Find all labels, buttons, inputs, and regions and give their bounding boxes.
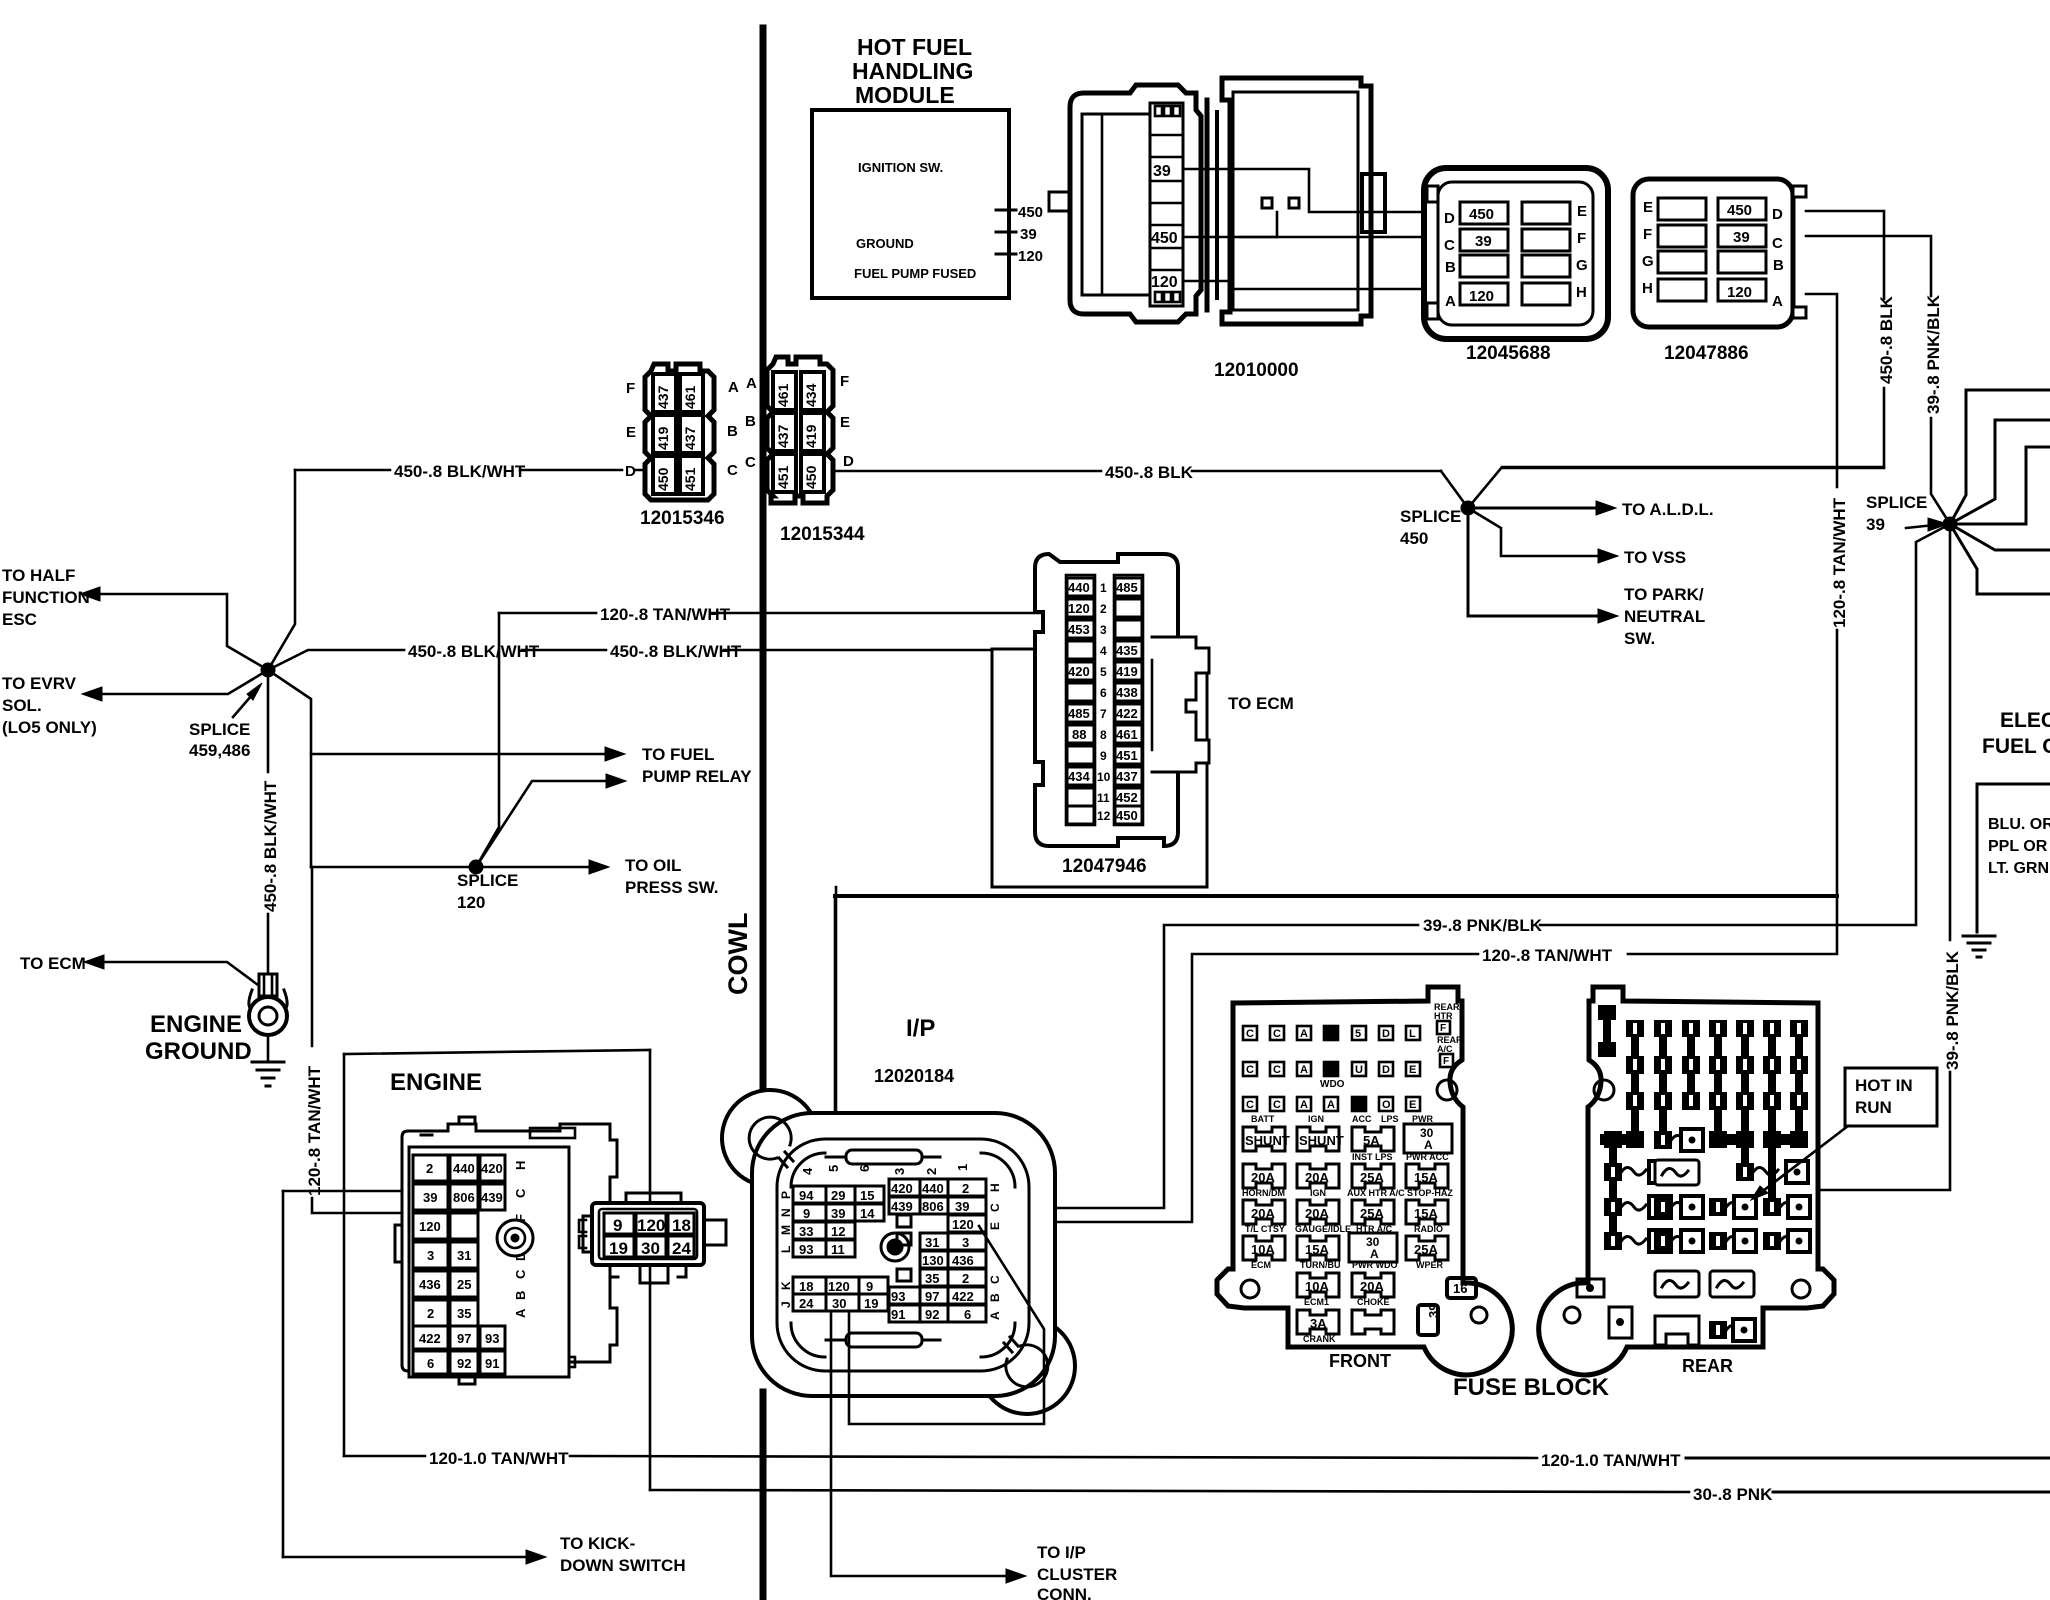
- FRONT fuse row B: [1243, 1152, 1449, 1188]
- svg-text:9: 9: [1100, 749, 1107, 763]
- svg-text:20A: 20A: [1305, 1206, 1329, 1221]
- ground symbol left: [252, 1035, 284, 1086]
- splice120 branch to fuel pump relay arrow2: [476, 774, 626, 867]
- splice 459,486: [189, 470, 295, 760]
- svg-text:15A: 15A: [1414, 1206, 1438, 1221]
- svg-text:ECM: ECM: [1251, 1260, 1271, 1270]
- svg-text:15A: 15A: [1305, 1242, 1329, 1257]
- svg-text:6: 6: [427, 1356, 434, 1371]
- svg-text:120-1.0 TAN/WHT: 120-1.0 TAN/WHT: [429, 1449, 569, 1468]
- splice450 branch to ALDL: [1468, 500, 1714, 519]
- svg-text:120-.8 TAN/WHT: 120-.8 TAN/WHT: [600, 605, 731, 624]
- svg-text:CLUSTER: CLUSTER: [1037, 1565, 1117, 1584]
- svg-text:U: U: [1355, 1064, 1363, 1076]
- svg-text:A: A: [1300, 1028, 1308, 1040]
- svg-text:A: A: [1327, 1099, 1335, 1111]
- svg-text:12045688: 12045688: [1466, 343, 1551, 364]
- svg-text:39: 39: [1475, 233, 1492, 250]
- splice39 staircase branch 3: [1950, 447, 2050, 524]
- svg-text:440: 440: [1068, 580, 1090, 595]
- svg-text:FRONT: FRONT: [1329, 1351, 1391, 1371]
- svg-text:6: 6: [964, 1307, 971, 1322]
- svg-text:436: 436: [419, 1277, 441, 1292]
- splice450 branch to park/neutral: [1468, 508, 1705, 648]
- wire 450-.8 BLK/WHT to ECM box: [268, 642, 992, 670]
- svg-text:120: 120: [1018, 248, 1043, 265]
- branch to kick-down switch: [283, 1534, 686, 1575]
- 12047946 pin grid: [1066, 575, 1143, 825]
- splice450 branch to VSS: [1468, 508, 1686, 567]
- wire engine box right / 120 to small connector: [649, 1050, 652, 1213]
- splice39 branch right-down 2: [1950, 524, 2050, 594]
- svg-text:12: 12: [831, 1224, 845, 1239]
- svg-text:G: G: [1576, 257, 1588, 274]
- engine connector pin grid: [413, 1155, 528, 1374]
- svg-text:93: 93: [799, 1242, 813, 1257]
- svg-text:120: 120: [637, 1216, 665, 1235]
- svg-text:29: 29: [831, 1188, 845, 1203]
- branch to fuel pump relay: [311, 745, 752, 786]
- svg-text:439: 439: [481, 1190, 503, 1205]
- svg-text:453: 453: [1068, 622, 1090, 637]
- svg-text:6: 6: [857, 1165, 872, 1172]
- svg-text:461: 461: [775, 383, 791, 407]
- bottom line 120-1.0 TAN/WHT: [344, 1449, 2050, 1470]
- svg-text:437: 437: [775, 424, 791, 448]
- wire 120 from 12010000: [1183, 281, 1424, 289]
- ground symbol right: [1963, 936, 1995, 957]
- svg-text:2: 2: [427, 1306, 434, 1321]
- FRONT fuse row E: [1251, 1260, 1444, 1297]
- connector 12045688: [1424, 168, 1608, 339]
- svg-text:I/P: I/P: [906, 1015, 935, 1042]
- svg-text:25A: 25A: [1414, 1242, 1438, 1257]
- wire to I/P cluster conn: [831, 1311, 1117, 1600]
- svg-text:437: 437: [1116, 769, 1138, 784]
- svg-text:IGNITION SW.: IGNITION SW.: [858, 160, 943, 175]
- svg-text:461: 461: [682, 385, 698, 409]
- svg-text:120: 120: [419, 1219, 441, 1234]
- wire 39 from 12010000: [1183, 169, 1424, 212]
- svg-text:450: 450: [803, 465, 819, 489]
- svg-text:10: 10: [1097, 770, 1111, 784]
- svg-text:15A: 15A: [1414, 1170, 1438, 1185]
- svg-text:ELEC: ELEC: [2000, 709, 2050, 732]
- svg-text:C: C: [988, 1275, 1002, 1284]
- splice 450: [1400, 467, 1884, 548]
- small engine connector 9/120/18: [579, 1193, 726, 1283]
- svg-text:E: E: [1643, 199, 1653, 216]
- svg-text:419: 419: [655, 426, 671, 450]
- wire 120-.8 TAN/WHT label line: [499, 605, 1064, 624]
- svg-text:422: 422: [419, 1331, 441, 1346]
- connector 12047946: [1035, 554, 1209, 846]
- svg-text:TO VSS: TO VSS: [1624, 548, 1686, 567]
- I/P right grid: [889, 1179, 1002, 1322]
- svg-text:20A: 20A: [1251, 1170, 1275, 1185]
- engine connector: [395, 1117, 617, 1384]
- svg-text:97: 97: [457, 1331, 471, 1346]
- splice459 to fuel pump/oil branch: [268, 670, 311, 867]
- svg-text:A: A: [746, 375, 757, 392]
- svg-text:PWR ACC: PWR ACC: [1406, 1152, 1449, 1162]
- svg-text:39: 39: [955, 1199, 969, 1214]
- svg-text:B: B: [988, 1293, 1002, 1302]
- wire 39 to engine connector: [283, 1190, 418, 1193]
- svg-text:450: 450: [655, 467, 671, 491]
- wire small connector down to 30-PNK: [649, 1266, 652, 1490]
- svg-text:TO EVRV: TO EVRV: [2, 674, 77, 693]
- svg-text:419: 419: [1116, 664, 1138, 679]
- svg-text:39: 39: [1866, 515, 1885, 534]
- TO ECM arrow left: [20, 954, 262, 988]
- svg-text:A/C: A/C: [1437, 1044, 1453, 1054]
- svg-text:450: 450: [1151, 230, 1178, 247]
- svg-text:20A: 20A: [1251, 1206, 1275, 1221]
- svg-text:SPLICE: SPLICE: [1400, 507, 1461, 526]
- svg-text:97: 97: [925, 1289, 939, 1304]
- FRONT letter boxes row3: [1243, 1097, 1420, 1111]
- wire 450-.8 BLK from 12047886 D: [1502, 211, 1896, 468]
- svg-text:120: 120: [457, 893, 485, 912]
- svg-text:450-.8 BLK/WHT: 450-.8 BLK/WHT: [408, 642, 540, 661]
- svg-text:93: 93: [891, 1289, 905, 1304]
- FRONT rear htr labels: [1434, 1002, 1463, 1054]
- svg-text:4: 4: [1100, 644, 1107, 658]
- svg-text:SPLICE: SPLICE: [1866, 493, 1927, 512]
- svg-text:120: 120: [952, 1217, 974, 1232]
- svg-text:120-.8 TAN/WHT: 120-.8 TAN/WHT: [1482, 946, 1613, 965]
- svg-text:91: 91: [891, 1307, 905, 1322]
- svg-text:452: 452: [1116, 790, 1138, 805]
- svg-text:B: B: [727, 423, 738, 440]
- svg-text:A: A: [513, 1308, 528, 1318]
- svg-text:39: 39: [423, 1190, 437, 1205]
- svg-text:3: 3: [892, 1168, 907, 1175]
- splice39 staircase branch 1: [1950, 390, 2050, 524]
- FRONT fuse row D: [1243, 1224, 1448, 1262]
- svg-text:PWR WDO: PWR WDO: [1352, 1260, 1398, 1270]
- svg-text:E: E: [1577, 203, 1587, 220]
- hfm pin 450: [996, 204, 1043, 221]
- branch to oil press sw: [311, 856, 719, 897]
- svg-text:H: H: [1642, 280, 1653, 297]
- svg-text:A: A: [1300, 1064, 1308, 1076]
- branch to EVRV sol: [2, 670, 268, 737]
- svg-text:33: 33: [799, 1224, 813, 1239]
- svg-text:RUN: RUN: [1855, 1098, 1892, 1117]
- bottom line 30-.8 PNK: [650, 1485, 2050, 1504]
- svg-text:459,486: 459,486: [189, 741, 250, 760]
- svg-text:4: 4: [800, 1167, 815, 1175]
- svg-text:C: C: [1273, 1099, 1281, 1111]
- svg-text:E: E: [1409, 1064, 1416, 1076]
- svg-text:25A: 25A: [1360, 1206, 1384, 1221]
- I/P center screw: [881, 1233, 909, 1261]
- svg-text:130: 130: [922, 1253, 944, 1268]
- connector 12047886: [1633, 179, 1806, 327]
- hfm pin 39: [996, 226, 1037, 243]
- svg-text:C: C: [1273, 1064, 1281, 1076]
- svg-text:HTR: HTR: [1434, 1011, 1453, 1021]
- svg-text:REAR: REAR: [1682, 1356, 1733, 1376]
- svg-text:C: C: [1444, 237, 1455, 254]
- svg-text:BATT: BATT: [1251, 1114, 1275, 1124]
- wire 450 from 12010000: [1183, 212, 1277, 237]
- svg-text:2: 2: [962, 1181, 969, 1196]
- svg-text:20A: 20A: [1360, 1279, 1384, 1294]
- svg-text:2: 2: [962, 1271, 969, 1286]
- svg-text:C: C: [513, 1188, 528, 1198]
- svg-text:F: F: [1643, 226, 1652, 243]
- svg-text:39: 39: [1153, 163, 1171, 180]
- svg-text:ENGINE: ENGINE: [150, 1011, 242, 1038]
- svg-text:5: 5: [826, 1165, 841, 1172]
- svg-text:11: 11: [831, 1242, 845, 1257]
- svg-text:450: 450: [1727, 202, 1752, 219]
- svg-text:TO KICK-: TO KICK-: [560, 1534, 635, 1553]
- svg-text:450: 450: [1116, 808, 1138, 823]
- svg-text:D: D: [1382, 1028, 1390, 1040]
- svg-text:451: 451: [682, 467, 698, 491]
- svg-text:H: H: [1576, 284, 1587, 301]
- svg-text:88: 88: [1072, 727, 1086, 742]
- svg-text:14: 14: [860, 1206, 875, 1221]
- svg-text:20A: 20A: [1305, 1170, 1329, 1185]
- svg-text:NEUTRAL: NEUTRAL: [1624, 607, 1705, 626]
- svg-text:C: C: [1273, 1028, 1281, 1040]
- svg-text:434: 434: [1068, 769, 1090, 784]
- wire ecm to I/P connector: [835, 887, 838, 1205]
- svg-text:485: 485: [1116, 580, 1138, 595]
- svg-text:5A: 5A: [1363, 1133, 1380, 1148]
- svg-text:94: 94: [799, 1188, 814, 1203]
- svg-text:120-.8 TAN/WHT: 120-.8 TAN/WHT: [305, 1065, 324, 1196]
- svg-text:G: G: [1642, 253, 1654, 270]
- svg-text:F: F: [1577, 230, 1586, 247]
- 12010000 mating bars: [1207, 100, 1217, 310]
- wire 450-.8 BLK/WHT left of 12015346: [295, 462, 645, 481]
- svg-text:120: 120: [1151, 274, 1178, 291]
- svg-text:12015344: 12015344: [780, 524, 865, 545]
- svg-text:25: 25: [457, 1277, 471, 1292]
- REAR terminal rows: [1604, 1129, 1810, 1252]
- COWL bulkhead line: [723, 28, 763, 1600]
- svg-text:806: 806: [453, 1190, 475, 1205]
- 12010000 pin strip: [1150, 103, 1183, 306]
- connector 12015346: [625, 364, 739, 500]
- svg-text:440: 440: [453, 1161, 475, 1176]
- hot fuel handling module title: [852, 34, 973, 108]
- svg-text:GROUND: GROUND: [145, 1038, 252, 1065]
- svg-text:450-.8 BLK/WHT: 450-.8 BLK/WHT: [610, 642, 742, 661]
- svg-text:450-.8 BLK: 450-.8 BLK: [1105, 463, 1194, 482]
- svg-text:A: A: [1424, 1138, 1433, 1152]
- svg-text:450-.8 BLK/WHT: 450-.8 BLK/WHT: [261, 780, 280, 912]
- connector 12015344: [745, 357, 854, 503]
- svg-text:30: 30: [832, 1296, 846, 1311]
- svg-text:C: C: [727, 462, 738, 479]
- svg-text:C: C: [1246, 1064, 1254, 1076]
- REAR left short column: [1598, 1005, 1616, 1057]
- svg-text:435: 435: [1116, 643, 1138, 658]
- svg-text:3: 3: [962, 1235, 969, 1250]
- svg-text:3A: 3A: [1310, 1316, 1327, 1331]
- svg-text:FUEL PUMP FUSED: FUEL PUMP FUSED: [854, 266, 976, 281]
- svg-text:2: 2: [924, 1168, 939, 1175]
- splice39 down wire 39-.8 PNK/BLK: [1748, 524, 1962, 1205]
- svg-text:92: 92: [457, 1356, 471, 1371]
- splice 120: [457, 860, 518, 912]
- svg-text:E: E: [840, 414, 850, 431]
- wire 39-.8 PNK/BLK from 12047886 C: [1806, 236, 1950, 524]
- svg-text:422: 422: [1116, 706, 1138, 721]
- wire from 120 label line down to splice120: [476, 613, 499, 867]
- svg-text:SPLICE: SPLICE: [189, 720, 250, 739]
- svg-text:A: A: [1370, 1247, 1379, 1261]
- FRONT letter boxes row2: [1243, 1062, 1420, 1090]
- svg-text:9: 9: [613, 1216, 622, 1235]
- svg-text:HTR A/C: HTR A/C: [1356, 1224, 1393, 1234]
- svg-text:10A: 10A: [1305, 1279, 1329, 1294]
- svg-text:HORN/DM: HORN/DM: [1242, 1188, 1285, 1198]
- splice 39: [1866, 493, 1957, 534]
- svg-text:ECM1: ECM1: [1304, 1297, 1329, 1307]
- svg-text:11: 11: [1097, 791, 1110, 805]
- svg-text:TO PARK/: TO PARK/: [1624, 585, 1704, 604]
- heavy 120 line under ECM box: [835, 894, 1837, 898]
- svg-text:SHUNT: SHUNT: [1299, 1133, 1344, 1148]
- svg-text:39: 39: [831, 1206, 845, 1221]
- svg-text:D: D: [843, 453, 854, 470]
- I/P box left edge: [834, 896, 837, 1140]
- svg-text:436: 436: [952, 1253, 974, 1268]
- svg-text:437: 437: [682, 426, 698, 450]
- svg-text:420: 420: [481, 1161, 503, 1176]
- svg-text:SPLICE: SPLICE: [457, 871, 518, 890]
- svg-text:422: 422: [952, 1289, 974, 1304]
- svg-text:92: 92: [925, 1307, 939, 1322]
- svg-text:TO FUEL: TO FUEL: [642, 745, 714, 764]
- svg-text:L: L: [779, 1246, 793, 1253]
- connector 12010000 right housing: [1222, 78, 1385, 324]
- svg-text:450-.8 BLK: 450-.8 BLK: [1877, 295, 1896, 384]
- svg-text:INST LPS: INST LPS: [1352, 1152, 1393, 1162]
- svg-text:F: F: [840, 373, 849, 390]
- svg-text:A: A: [988, 1311, 1002, 1320]
- svg-text:RADIO: RADIO: [1414, 1224, 1443, 1234]
- wire 450-.8 BLK right of 12015344: [836, 463, 1441, 482]
- svg-text:2: 2: [426, 1161, 433, 1176]
- svg-text:PWR: PWR: [1412, 1114, 1433, 1124]
- svg-text:IGN: IGN: [1310, 1188, 1326, 1198]
- svg-text:3: 3: [427, 1248, 434, 1263]
- svg-text:120: 120: [828, 1279, 850, 1294]
- svg-text:GROUND: GROUND: [856, 236, 914, 251]
- svg-text:10A: 10A: [1251, 1242, 1275, 1257]
- svg-text:B: B: [1773, 257, 1784, 274]
- svg-text:5: 5: [1100, 665, 1107, 679]
- svg-text:GAUGE/IDLE: GAUGE/IDLE: [1295, 1224, 1351, 1234]
- wire 120-.8 TAN/WHT to I/P: [988, 946, 1613, 1222]
- svg-text:19: 19: [864, 1296, 878, 1311]
- svg-text:39: 39: [1733, 229, 1750, 246]
- svg-text:12020184: 12020184: [874, 1066, 954, 1086]
- svg-text:HANDLING: HANDLING: [852, 58, 973, 84]
- svg-text:E: E: [626, 424, 636, 441]
- svg-text:ESC: ESC: [2, 610, 37, 629]
- REAR top chains: [1626, 1020, 1808, 1148]
- svg-text:440: 440: [922, 1181, 944, 1196]
- svg-text:SW.: SW.: [1624, 629, 1655, 648]
- svg-text:WDO: WDO: [1320, 1079, 1345, 1090]
- svg-text:H: H: [988, 1183, 1002, 1192]
- svg-text:120-.8 TAN/WHT: 120-.8 TAN/WHT: [1830, 497, 1849, 628]
- svg-text:24: 24: [672, 1239, 691, 1258]
- I/P top pin numbers: [800, 1164, 970, 1175]
- svg-text:39-.8 PNK/BLK: 39-.8 PNK/BLK: [1924, 294, 1943, 414]
- svg-text:A: A: [1445, 293, 1456, 310]
- wire C row to 12045688: [1240, 236, 1424, 239]
- svg-text:16: 16: [1453, 1281, 1467, 1296]
- svg-text:120-1.0 TAN/WHT: 120-1.0 TAN/WHT: [1541, 1451, 1681, 1470]
- I/P connector body: [722, 1090, 1075, 1414]
- svg-text:93: 93: [485, 1331, 499, 1346]
- svg-text:MODULE: MODULE: [855, 82, 955, 108]
- svg-text:ENGINE: ENGINE: [390, 1069, 482, 1096]
- svg-text:WPER: WPER: [1416, 1260, 1444, 1270]
- REAR bottom fuses: [1655, 1271, 1755, 1345]
- svg-text:E: E: [988, 1222, 1002, 1230]
- svg-text:D: D: [1772, 206, 1783, 223]
- svg-text:TURN/BU: TURN/BU: [1300, 1260, 1341, 1270]
- svg-text:C: C: [1246, 1099, 1254, 1111]
- svg-text:TO I/P: TO I/P: [1037, 1543, 1086, 1562]
- svg-text:437: 437: [655, 385, 671, 409]
- wire 39-.8 PNK/BLK to I/P: [988, 524, 1950, 1208]
- svg-text:CRANK: CRANK: [1303, 1334, 1336, 1344]
- svg-text:FUNCTION: FUNCTION: [2, 588, 90, 607]
- svg-text:15: 15: [860, 1188, 874, 1203]
- svg-text:T/L CTSY: T/L CTSY: [1245, 1224, 1285, 1234]
- svg-text:5: 5: [1355, 1028, 1361, 1040]
- svg-text:C: C: [513, 1269, 528, 1279]
- FRONT fuse row A: [1243, 1114, 1452, 1153]
- svg-text:PPL OR: PPL OR: [1988, 838, 2048, 855]
- svg-text:LT. GRN: LT. GRN: [1988, 860, 2049, 877]
- REAR H links: [1600, 1131, 1808, 1236]
- svg-text:35: 35: [925, 1271, 939, 1286]
- wire 120-.8 TAN/WHT from 12047886 A: [1628, 294, 1849, 954]
- svg-text:6: 6: [1100, 686, 1107, 700]
- svg-text:O: O: [1382, 1099, 1391, 1111]
- svg-text:DOWN SWITCH: DOWN SWITCH: [560, 1556, 686, 1575]
- svg-text:AUX HTR A/C: AUX HTR A/C: [1347, 1188, 1405, 1198]
- svg-text:D: D: [1382, 1064, 1390, 1076]
- svg-text:19: 19: [609, 1239, 628, 1258]
- svg-text:SHUNT: SHUNT: [1245, 1133, 1290, 1148]
- svg-text:420: 420: [1068, 664, 1090, 679]
- svg-text:8: 8: [1100, 728, 1107, 742]
- svg-text:3: 3: [1100, 623, 1107, 637]
- I/P upper-left grid: [779, 1186, 884, 1257]
- svg-text:ACC: ACC: [1352, 1114, 1372, 1124]
- ENGINE GROUND label: [145, 1011, 252, 1065]
- svg-text:HOT FUEL: HOT FUEL: [857, 34, 972, 60]
- svg-text:24: 24: [799, 1296, 814, 1311]
- svg-text:806: 806: [922, 1199, 944, 1214]
- svg-text:M: M: [779, 1225, 793, 1235]
